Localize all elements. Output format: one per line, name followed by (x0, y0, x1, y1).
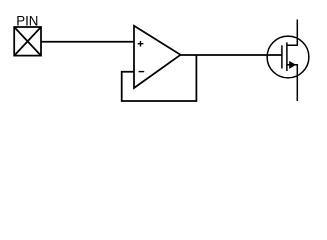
svg-text:PIN: PIN (16, 12, 38, 28)
